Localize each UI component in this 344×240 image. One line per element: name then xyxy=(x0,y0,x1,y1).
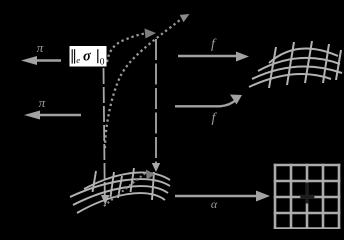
dotted curve A (from box to right arrow) xyxy=(107,29,156,63)
mesh top-right (curved surface patch) xyxy=(249,41,342,88)
dotted diagonal inside bottom mesh with dark head xyxy=(104,170,155,207)
svg-text:σ: σ xyxy=(83,49,92,65)
white label box xyxy=(70,46,107,67)
dotted curve B (from lower area up to top-right arrow) xyxy=(105,14,190,148)
arrow pi 2 (lower left, pointing left) xyxy=(24,111,81,120)
arrow alpha (pointing right to grid) xyxy=(175,191,270,202)
arrow pi 1 (upper left, pointing left) xyxy=(21,56,61,65)
svg-text:e: e xyxy=(76,55,80,65)
dashed vertical line L1 (below box, arrow down to lower mesh) xyxy=(101,68,110,205)
svg-text:α: α xyxy=(211,197,218,211)
svg-text:0: 0 xyxy=(100,58,105,68)
grid (4x4 square lattice) xyxy=(274,164,341,229)
dark plus marker on grid xyxy=(300,183,314,204)
svg-text:π: π xyxy=(37,40,44,55)
mesh bottom (curved surface patch) xyxy=(70,168,170,213)
dashed vertical line L2 (from top arrowhead down to lower mesh) xyxy=(152,39,160,172)
svg-text:π: π xyxy=(39,95,46,110)
label sigma restriction text xyxy=(72,49,98,63)
arrow f top (pointing right) xyxy=(178,52,249,62)
arrow f bottom (curving up-right) xyxy=(175,95,242,107)
